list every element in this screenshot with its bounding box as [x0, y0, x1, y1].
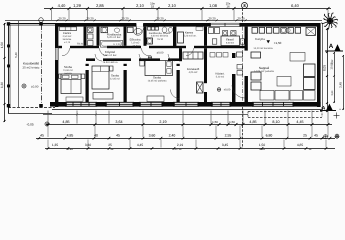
- svg-text:34,45: 34,45: [174, 148, 182, 150]
- svg-text:20 20: 20 20: [208, 16, 216, 20]
- svg-text:2,10: 2,10: [168, 3, 177, 8]
- svg-text:20 20: 20 20: [86, 16, 94, 20]
- svg-text:9,40 m2: 9,40 m2: [226, 41, 235, 44]
- svg-text:4,05 m2: 4,05 m2: [189, 71, 198, 74]
- svg-text:kerámia: kerámia: [63, 38, 72, 41]
- svg-text:25: 25: [110, 148, 114, 150]
- svg-text:Fürdőszoba, mosdó: Fürdőszoba, mosdó: [149, 32, 171, 35]
- svg-text:k: 2,10: k: 2,10: [114, 43, 122, 46]
- svg-text:7,10 m2: 7,10 m2: [131, 41, 140, 44]
- svg-text:Konyha: Konyha: [255, 37, 265, 41]
- svg-text:3,60: 3,60: [85, 143, 92, 147]
- svg-text:1,50: 1,50: [259, 148, 265, 150]
- svg-text:±0,00: ±0,00: [31, 84, 39, 88]
- svg-text:±0,00: ±0,00: [224, 89, 231, 92]
- svg-text:3,64: 3,64: [115, 120, 122, 124]
- svg-text:1,35: 1,35: [52, 143, 59, 147]
- svg-text:2,19: 2,19: [159, 120, 166, 124]
- svg-text:-0,05: -0,05: [26, 122, 33, 126]
- svg-text:45: 45: [40, 133, 44, 137]
- svg-text:20 20: 20 20: [121, 16, 129, 20]
- svg-text:2,85: 2,85: [96, 3, 105, 8]
- svg-text:4,45: 4,45: [137, 143, 144, 147]
- svg-text:+1,50: +1,50: [274, 41, 282, 45]
- svg-text:45: 45: [116, 133, 120, 137]
- svg-text:3,60: 3,60: [149, 133, 156, 137]
- svg-text:20 20: 20 20: [237, 16, 245, 20]
- svg-text:2,55: 2,55: [225, 133, 232, 137]
- svg-text:1,50: 1,50: [212, 120, 218, 124]
- svg-text:3,60: 3,60: [67, 148, 73, 150]
- svg-text:5,20 m2 ker.: 5,20 m2 ker.: [184, 34, 197, 37]
- svg-text:TB 010: TB 010: [132, 44, 140, 47]
- svg-text:TB 010 460 Ha: TB 010 460 Ha: [102, 61, 118, 64]
- svg-text:10,05 m2 parketta: 10,05 m2 parketta: [148, 80, 167, 83]
- svg-text:6,80: 6,80: [266, 133, 273, 137]
- svg-text:1,08: 1,08: [209, 3, 218, 8]
- svg-text:1,50: 1,50: [259, 143, 266, 147]
- svg-text:3,45: 3,45: [222, 143, 229, 147]
- svg-text:14,20 m2 kerámia: 14,20 m2 kerámia: [253, 47, 273, 50]
- svg-text:5,20 m2 ker.: 5,20 m2 ker.: [107, 36, 121, 39]
- svg-text:1,50: 1,50: [229, 120, 235, 124]
- svg-text:parketta: parketta: [64, 72, 72, 75]
- svg-text:25 m2 terasz: 25 m2 terasz: [23, 65, 41, 69]
- svg-text:25: 25: [303, 133, 307, 137]
- svg-text:25: 25: [108, 143, 112, 147]
- svg-text:6,30: 6,30: [0, 82, 4, 88]
- svg-text:3,60: 3,60: [331, 90, 334, 95]
- svg-text:45: 45: [314, 133, 318, 137]
- svg-text:±0,00: ±0,00: [157, 51, 164, 54]
- svg-text:4,40: 4,40: [58, 3, 67, 8]
- svg-text:12,05 m2: 12,05 m2: [110, 78, 120, 81]
- svg-text:7,60 m2 ker.: 7,60 m2 ker.: [103, 54, 117, 57]
- svg-text:Szoba: Szoba: [153, 75, 161, 79]
- svg-text:11,00 m2: 11,00 m2: [63, 69, 73, 72]
- svg-text:45: 45: [308, 148, 312, 150]
- svg-text:4,85: 4,85: [249, 120, 256, 124]
- svg-text:3,45: 3,45: [339, 82, 343, 88]
- svg-text:TB 30: TB 30: [157, 38, 164, 41]
- svg-text:2,10: 2,10: [136, 3, 145, 8]
- svg-text:6,40: 6,40: [291, 3, 300, 8]
- svg-text:8,05: 8,05: [323, 65, 327, 72]
- svg-text:4,85: 4,85: [297, 143, 304, 147]
- svg-text:14,05 m2 parketta: 14,05 m2 parketta: [254, 70, 274, 73]
- svg-text:5,20 m2: 5,20 m2: [216, 76, 225, 79]
- svg-text:8,10: 8,10: [272, 120, 279, 124]
- svg-text:e:2,70: e:2,70: [64, 41, 71, 44]
- svg-text:Szoba: Szoba: [111, 74, 119, 78]
- svg-text:5,40: 5,40: [14, 52, 18, 58]
- svg-text:A: A: [329, 43, 334, 50]
- svg-text:16: 16: [226, 5, 230, 9]
- svg-text:2,40: 2,40: [169, 133, 176, 137]
- svg-text:Háztart.: Háztart.: [215, 73, 225, 76]
- svg-text:1,29: 1,29: [73, 3, 82, 8]
- svg-text:20 20: 20 20: [156, 16, 164, 20]
- svg-text:4,60 m2 kerámia: 4,60 m2 kerámia: [151, 35, 169, 38]
- svg-text:4,45: 4,45: [296, 120, 303, 124]
- svg-text:1,50: 1,50: [0, 42, 4, 48]
- svg-text:Folyosó: Folyosó: [105, 50, 116, 54]
- svg-text:4,85: 4,85: [62, 120, 69, 124]
- svg-text:Szoba: Szoba: [64, 65, 72, 69]
- svg-text:10,05: 10,05: [330, 62, 334, 70]
- svg-text:TB 30: TB 30: [77, 43, 84, 46]
- svg-text:Étkező: Étkező: [226, 37, 234, 41]
- svg-text:2,19: 2,19: [177, 143, 184, 147]
- svg-text:20 20: 20 20: [58, 16, 66, 20]
- svg-text:4,85: 4,85: [67, 133, 74, 137]
- svg-text:18: 18: [151, 5, 155, 9]
- svg-text:40: 40: [94, 133, 98, 137]
- svg-text:Kamra: Kamra: [185, 31, 194, 34]
